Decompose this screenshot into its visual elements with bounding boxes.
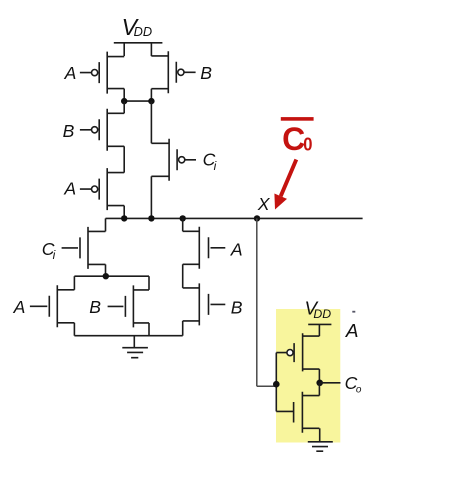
output dot [316, 380, 323, 387]
svg-text:B: B [89, 297, 101, 317]
junction dot [180, 215, 186, 221]
ground symbol [122, 336, 148, 358]
wire M2 drain down [150, 89, 152, 101]
svg-text:o: o [356, 385, 362, 396]
inverter input gate wire [275, 353, 277, 412]
svg-text:A: A [64, 63, 77, 83]
junction dot [103, 273, 109, 279]
wire to N3 drain [148, 276, 150, 290]
VDD rail (main) [114, 42, 163, 44]
wire node1 to M5 [150, 101, 152, 143]
svg-text:A: A [13, 297, 26, 317]
svg-text:B: B [63, 121, 75, 141]
wire X to N4 drain [182, 218, 184, 231]
wire P6 to output [318, 369, 320, 383]
node X dot [254, 215, 260, 221]
junction dot [121, 98, 127, 104]
wire N3 source to gnd rail [148, 323, 150, 336]
svg-text:A: A [230, 239, 243, 259]
node X horizontal line [106, 217, 363, 219]
wire node1 to M3 [123, 101, 125, 113]
pmos M1 (A, top-left) [80, 52, 124, 94]
nmos N2 (A, bottom-left) [30, 285, 75, 327]
wire N6 to ground [319, 428, 321, 442]
svg-text:DD: DD [134, 24, 152, 39]
ground rail [74, 335, 182, 337]
junction dot [148, 215, 154, 221]
svg-text:B: B [200, 63, 212, 83]
wire VDD to M1 [123, 43, 125, 56]
stray dash mark [352, 311, 355, 313]
wire VDD to P6 [318, 324, 320, 336]
svg-text:i: i [53, 248, 56, 262]
wire to N2 drain [73, 276, 75, 290]
svg-text:C: C [282, 121, 305, 157]
wire X to N1 drain [105, 218, 107, 231]
svg-text:0: 0 [303, 133, 312, 154]
wire M4 to X line [123, 206, 125, 219]
nmos N6 (box inverter) [276, 392, 319, 433]
nmos N1 (Ci) [62, 227, 106, 269]
pmos P6 (box inverter) [276, 333, 319, 371]
nmos N4 (A, right branch) [183, 227, 226, 269]
wire N2 source to gnd rail [73, 323, 75, 336]
svg-text:B: B [231, 298, 243, 318]
svg-text:A: A [345, 321, 359, 342]
output wire Co [320, 382, 341, 384]
VDD rail (box) [308, 323, 331, 325]
wire M1 drain down [123, 89, 125, 102]
intermediate node wire [74, 275, 149, 277]
wire N4 to N5 [182, 264, 184, 288]
svg-text:A: A [63, 179, 76, 199]
pmos M2 (B, top-right) [151, 51, 195, 93]
svg-text:X: X [257, 194, 271, 214]
wire M3 to M4 [123, 146, 125, 172]
pmos M3 (B, second row left) [80, 109, 124, 151]
label C0bar (red) [281, 117, 314, 121]
junction dot [148, 98, 154, 104]
junction dot [121, 215, 127, 221]
svg-text:DD: DD [313, 307, 331, 321]
junction dot (inverter input) [273, 381, 280, 388]
pmos M4 (A, third row left) [80, 168, 124, 210]
wire X down to inverter input [257, 218, 277, 386]
nmos N3 (B, middle) [108, 285, 149, 327]
nmos N5 (B, right branch) [183, 283, 226, 325]
red arrow to node X [281, 160, 297, 197]
wire N1 source down [105, 264, 107, 276]
svg-text:i: i [214, 159, 217, 173]
wire N5 source to gnd rail [182, 321, 184, 336]
node row 1 wire [124, 100, 151, 102]
pmos M5 (Ci, right branch) [151, 139, 196, 181]
wire output to N6 [318, 383, 320, 396]
wire VDD to M2 [150, 43, 152, 56]
ground symbol (box) [308, 442, 333, 451]
wire M5 to X line [150, 176, 152, 218]
highlight box (yellow) [276, 309, 340, 443]
